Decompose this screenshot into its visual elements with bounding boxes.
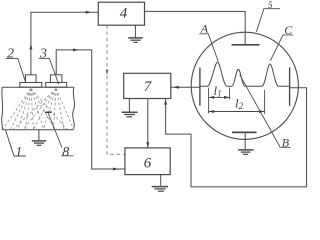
svg-text:6: 6 — [144, 156, 152, 172]
leader and shelf for label 5 — [256, 9, 280, 32]
left electrode bar A — [199, 68, 201, 106]
dimension l1 — [209, 96, 230, 98]
leader for label 2 — [6, 58, 26, 81]
dashed sync line from block 4 down to block 6 — [107, 25, 124, 154]
svg-text:l2: l2 — [235, 96, 244, 112]
sweep trace baseline with pulses A, B, C — [201, 62, 289, 86]
ground under block 7 — [128, 99, 130, 112]
block 6 (amplifier) — [125, 148, 170, 175]
bottom electrode plate in tube — [232, 131, 257, 133]
arrow left into block 7 — [173, 86, 179, 89]
right electrode bar C — [289, 68, 291, 106]
svg-text:A: A — [200, 22, 209, 36]
dimension l2 — [209, 111, 265, 113]
svg-text:5: 5 — [268, 0, 273, 10]
svg-text:4: 4 — [120, 6, 128, 22]
svg-text:C: C — [284, 23, 293, 37]
leader for label 1 — [5, 130, 25, 156]
leader and shelf for label C — [270, 35, 293, 61]
arrow right on transducer-3 wire — [73, 48, 78, 51]
wire block 4 to tube top electrode — [145, 11, 246, 44]
svg-text:8: 8 — [62, 145, 69, 160]
wire loop from plate C around to block 7 — [166, 88, 307, 187]
wire bottom electrode to ground — [244, 132, 246, 149]
top electrode plate in tube — [232, 44, 260, 46]
ground under block 4 — [134, 25, 136, 37]
workpiece right break edge — [73, 87, 75, 130]
arrow up into block 7 bottom — [164, 99, 167, 104]
block 4 (generator) — [98, 2, 144, 25]
extension line at pulse C — [264, 90, 266, 114]
arrow up on transducer-2 wire — [29, 44, 32, 50]
ultrasonic beam fan from transducer 3 (dashed) — [14, 89, 57, 130]
ground under workpiece — [38, 130, 40, 141]
svg-text:1: 1 — [15, 145, 22, 160]
ground under tube — [238, 149, 254, 151]
workpiece block 1: top edge — [2, 86, 74, 88]
svg-text:B: B — [282, 135, 290, 149]
transducer 3 body — [46, 83, 67, 88]
defect mark 8 inside workpiece — [45, 111, 52, 113]
leader for label 3 — [39, 58, 59, 84]
transducer 2 body — [20, 83, 42, 88]
arrow right into block 4 — [86, 11, 91, 14]
svg-text:l1: l1 — [214, 83, 222, 99]
leader and shelf for label A — [199, 34, 218, 62]
ultrasonic beam fan from transducer 2 (dashed) — [3, 89, 74, 130]
workpiece left break edge — [2, 87, 3, 130]
wire from transducer 3 right and down to block 6 input — [56, 50, 125, 169]
extension line at pulse A — [208, 88, 210, 114]
wire block 7 to block 6 — [147, 99, 149, 148]
arrow down into block 6 — [146, 142, 149, 147]
leader for label 8 — [49, 114, 74, 156]
wire from transducer 2 up and right to block 4 input — [31, 12, 98, 75]
arrow down on dashed line — [106, 70, 109, 75]
ground under block 6 — [160, 175, 162, 186]
svg-text:2: 2 — [7, 46, 14, 61]
wire from plate A to block 7 input — [171, 86, 200, 88]
extension line at pulse B — [229, 88, 231, 100]
block 7 (sweep unit) — [124, 73, 171, 98]
svg-text:3: 3 — [39, 46, 47, 61]
workpiece bottom edge — [2, 129, 73, 131]
tube 5 (CRT envelope circle) — [191, 32, 298, 139]
arrow right into block 6 — [113, 168, 118, 171]
svg-text:7: 7 — [144, 79, 153, 95]
leader and shelf for label B — [240, 75, 291, 148]
